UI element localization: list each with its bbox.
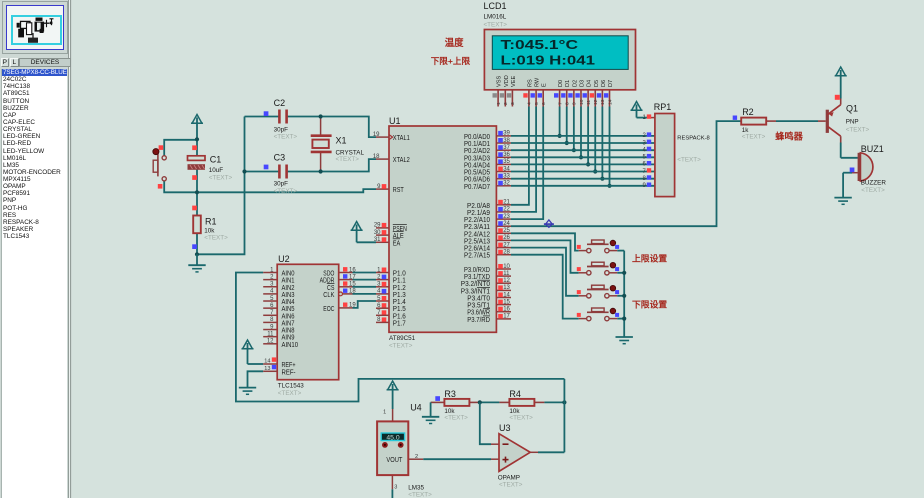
svg-text:25: 25 <box>503 228 510 234</box>
svg-text:2: 2 <box>503 102 509 105</box>
svg-text:13: 13 <box>600 99 606 105</box>
svg-text:T:045.1°C: T:045.1°C <box>501 37 579 52</box>
svg-text:<TEXT>: <TEXT> <box>509 415 533 422</box>
svg-text:22: 22 <box>503 207 510 213</box>
svg-text:RS: RS <box>527 79 533 87</box>
svg-text:D3: D3 <box>579 80 585 87</box>
svg-text:17: 17 <box>503 314 510 320</box>
svg-text:D2: D2 <box>572 80 578 87</box>
svg-text:10k: 10k <box>204 227 215 234</box>
svg-text:<TEXT>: <TEXT> <box>846 126 870 133</box>
svg-text:P0.7/AD7: P0.7/AD7 <box>464 182 490 191</box>
svg-text:10: 10 <box>579 99 585 105</box>
svg-text:P1.7: P1.7 <box>393 318 406 327</box>
svg-text:12: 12 <box>593 99 599 105</box>
svg-text:12: 12 <box>503 278 510 284</box>
svg-text:35: 35 <box>503 159 510 165</box>
svg-text:RP1: RP1 <box>654 102 672 112</box>
svg-text:R1: R1 <box>205 216 217 226</box>
svg-text:D5: D5 <box>594 80 600 87</box>
svg-text:3: 3 <box>394 485 397 491</box>
svg-text:TLC1543: TLC1543 <box>278 383 304 390</box>
svg-text:1: 1 <box>496 102 502 105</box>
svg-text:15: 15 <box>349 282 356 288</box>
svg-text:VEE: VEE <box>511 76 517 87</box>
svg-text:24: 24 <box>503 221 510 227</box>
svg-text:RW: RW <box>535 77 541 87</box>
svg-text:XTAL2: XTAL2 <box>393 155 410 164</box>
svg-text:LCD1: LCD1 <box>484 1 507 11</box>
svg-text:16: 16 <box>503 307 510 313</box>
svg-text:23: 23 <box>503 214 510 220</box>
svg-text:<TEXT>: <TEXT> <box>389 343 413 350</box>
svg-text:16: 16 <box>349 267 356 273</box>
svg-text:26: 26 <box>503 235 510 241</box>
svg-text:R4: R4 <box>509 389 521 399</box>
svg-text:32: 32 <box>503 181 510 187</box>
svg-text:U4: U4 <box>410 403 422 413</box>
svg-text:15: 15 <box>503 299 510 305</box>
svg-text:温度: 温度 <box>445 37 464 48</box>
svg-text:8: 8 <box>565 102 571 105</box>
svg-text:11: 11 <box>267 331 274 337</box>
svg-text:D1: D1 <box>565 80 571 87</box>
svg-text:<TEXT>: <TEXT> <box>444 415 468 422</box>
svg-text:28: 28 <box>503 250 510 256</box>
svg-text:45.0: 45.0 <box>386 435 399 442</box>
svg-text:2: 2 <box>415 454 418 460</box>
svg-text:17: 17 <box>349 274 356 280</box>
svg-text:C1: C1 <box>210 155 222 165</box>
svg-text:19: 19 <box>373 132 380 138</box>
svg-text:U1: U1 <box>389 116 401 126</box>
svg-text:<TEXT>: <TEXT> <box>204 235 228 242</box>
svg-text:7: 7 <box>557 102 563 105</box>
svg-text:14: 14 <box>607 99 613 105</box>
svg-text:<TEXT>: <TEXT> <box>677 157 701 164</box>
svg-text:21: 21 <box>503 200 510 206</box>
svg-text:<TEXT>: <TEXT> <box>861 187 885 194</box>
svg-text:OPAMP: OPAMP <box>498 474 520 481</box>
svg-text:U3: U3 <box>499 423 511 433</box>
svg-text:C3: C3 <box>274 153 286 163</box>
svg-text:14: 14 <box>503 292 510 298</box>
svg-text:<TEXT>: <TEXT> <box>336 156 360 163</box>
svg-text:R3: R3 <box>444 389 456 399</box>
svg-text:<TEXT>: <TEXT> <box>484 22 508 29</box>
svg-text:1: 1 <box>383 410 386 416</box>
svg-text:REF-: REF- <box>282 367 296 376</box>
svg-text:<TEXT>: <TEXT> <box>278 390 302 397</box>
svg-text:18: 18 <box>349 289 356 295</box>
svg-text:18: 18 <box>373 154 380 160</box>
svg-text:5: 5 <box>534 102 540 105</box>
svg-text:VOUT: VOUT <box>386 457 403 464</box>
svg-text:36: 36 <box>503 152 510 158</box>
svg-text:CLK: CLK <box>323 290 334 299</box>
svg-text:EOC: EOC <box>323 304 334 313</box>
svg-text:X1: X1 <box>336 136 347 146</box>
svg-text:3: 3 <box>510 102 516 105</box>
svg-text:12: 12 <box>267 339 274 345</box>
svg-text:下限设置: 下限设置 <box>632 298 667 309</box>
svg-text:D0: D0 <box>558 80 564 87</box>
svg-text:29: 29 <box>374 223 381 229</box>
svg-text:VDD: VDD <box>504 75 510 87</box>
svg-text:13: 13 <box>264 366 270 372</box>
svg-text:BUZ1: BUZ1 <box>861 144 884 154</box>
svg-text:Q1: Q1 <box>846 104 858 114</box>
svg-text:R2: R2 <box>742 107 754 117</box>
svg-text:39: 39 <box>503 131 510 137</box>
svg-text:19: 19 <box>349 303 356 309</box>
svg-text:34: 34 <box>503 166 510 172</box>
svg-text:31: 31 <box>374 237 381 243</box>
svg-text:30pF: 30pF <box>274 127 289 134</box>
svg-text:<TEXT>: <TEXT> <box>742 134 766 141</box>
svg-text:RESPACK-8: RESPACK-8 <box>677 136 710 142</box>
svg-text:9: 9 <box>572 102 578 105</box>
svg-text:BUZZER: BUZZER <box>861 180 887 187</box>
svg-text:LM016L: LM016L <box>484 14 507 21</box>
svg-text:U2: U2 <box>278 254 290 264</box>
svg-text:蜂鸣器: 蜂鸣器 <box>775 131 803 142</box>
svg-text:30pF: 30pF <box>274 181 289 188</box>
svg-text:10: 10 <box>503 264 510 270</box>
svg-text:<TEXT>: <TEXT> <box>209 174 233 181</box>
svg-text:P2.7/A15: P2.7/A15 <box>464 251 490 260</box>
svg-text:D6: D6 <box>601 80 607 87</box>
svg-text:27: 27 <box>503 242 510 248</box>
svg-text:11: 11 <box>503 271 510 277</box>
svg-text:<TEXT>: <TEXT> <box>274 188 298 195</box>
svg-text:<TEXT>: <TEXT> <box>408 492 432 498</box>
svg-text:D4: D4 <box>587 80 593 87</box>
svg-text:30: 30 <box>374 230 381 236</box>
svg-text:AT89C51: AT89C51 <box>389 335 416 342</box>
svg-text:14: 14 <box>264 358 270 364</box>
svg-text:38: 38 <box>503 138 510 144</box>
svg-text:C2: C2 <box>274 98 286 108</box>
svg-text:LM35: LM35 <box>408 484 424 491</box>
svg-text:33: 33 <box>503 174 510 180</box>
svg-text:下限+上限: 下限+上限 <box>431 55 471 66</box>
svg-text:XTAL1: XTAL1 <box>393 133 410 142</box>
svg-text:RST: RST <box>393 185 404 194</box>
svg-text:PNP: PNP <box>846 118 859 125</box>
svg-text:37: 37 <box>503 145 510 151</box>
svg-text:L:019 H:041: L:019 H:041 <box>501 53 596 68</box>
svg-text:<TEXT>: <TEXT> <box>274 134 298 141</box>
svg-text:6: 6 <box>541 102 547 105</box>
svg-text:E: E <box>542 83 548 87</box>
svg-text:4: 4 <box>527 102 533 105</box>
svg-text:11: 11 <box>586 100 592 105</box>
svg-text:D7: D7 <box>608 80 614 87</box>
svg-text:VSS: VSS <box>497 76 503 87</box>
svg-text:13: 13 <box>503 285 510 291</box>
svg-text:<TEXT>: <TEXT> <box>499 482 523 489</box>
svg-text:AIN10: AIN10 <box>282 340 299 349</box>
svg-text:10uF: 10uF <box>209 167 224 174</box>
svg-text:EA: EA <box>393 238 401 247</box>
svg-text:上限设置: 上限设置 <box>632 252 667 263</box>
